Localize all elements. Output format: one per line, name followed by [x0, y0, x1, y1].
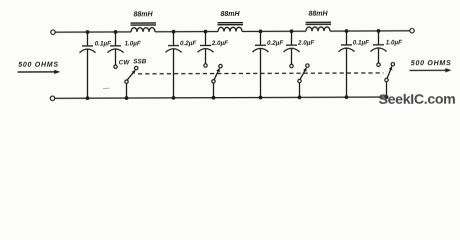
- junction dot C6 on top rail: [290, 29, 294, 33]
- capacitor C7 lead (bottom, to ground rail): [346, 48, 348, 97]
- junction dot C1 on top rail: [86, 30, 90, 34]
- svg-text:SSB: SSB: [133, 58, 146, 65]
- switch S1 throw contact circle (SSB side): [135, 66, 138, 69]
- switch S2 throw contact circle (SSB side): [219, 64, 222, 67]
- inductor L1 88mH winding: [131, 28, 155, 32]
- capacitor C5 plates (0.2&#181;F): [253, 45, 269, 52]
- arrow: signal direction (left input): [18, 70, 61, 74]
- junction dot C7 on top rail: [345, 29, 349, 33]
- svg-text:0.1µF: 0.1µF: [353, 40, 369, 47]
- switch S1 arm with arrowhead: [127, 70, 135, 80]
- inductor L2 value label 88mH: [220, 11, 240, 18]
- switch S3 arm with arrowhead: [300, 68, 306, 80]
- capacitor C8 lead (top): [378, 31, 380, 44]
- wire: top rail, T1 to L1: [55, 31, 131, 33]
- capacitor C2 lead (top): [115, 32, 117, 45]
- capacitor C4 value label 2.0&#181;F: [211, 40, 228, 47]
- capacitor C3 lead (bottom, to ground rail): [173, 49, 175, 98]
- svg-text:500 OHMS: 500 OHMS: [411, 60, 452, 67]
- capacitor C4 plates (2.0&#181;F): [198, 45, 214, 52]
- inductor L2 core bars: [218, 23, 244, 25]
- wire: switch S2 pole to bottom rail: [213, 83, 215, 98]
- svg-text:0.1µF: 0.1µF: [95, 41, 111, 48]
- wire: switch S4 pole to bottom rail: [386, 82, 388, 97]
- capacitor C5 lead (bottom, to ground rail): [260, 49, 262, 98]
- faint scan artifact dash: [103, 87, 110, 89]
- capacitor C2 value label 1.0&#181;F: [125, 41, 141, 48]
- inductor L2 88mH winding: [218, 27, 242, 31]
- wire: top rail, L2 to L3: [242, 30, 306, 32]
- inductor L3 core bars: [306, 22, 332, 24]
- inductor L3 88mH winding: [306, 27, 330, 31]
- svg-text:SeekIC.com: SeekIC.com: [379, 92, 456, 108]
- switch contact circle at bottom of C2: [114, 65, 117, 68]
- inductor L3 value label 88mH: [308, 11, 328, 18]
- capacitor C7 value label 0.1&#181;F: [353, 40, 369, 47]
- svg-text:1.0µF: 1.0µF: [386, 40, 402, 47]
- switch S4 arm with arrowhead: [387, 66, 392, 78]
- junction dot C5 on top rail: [259, 29, 263, 33]
- capacitor C6 plates (2.0&#181;F): [284, 45, 300, 52]
- arrow: signal direction (right output): [410, 68, 452, 72]
- capacitor C1 lead (bottom, to ground rail): [87, 49, 89, 98]
- svg-text:1.0µF: 1.0µF: [125, 41, 141, 48]
- capacitor C5 value label 0.2&#181;F: [267, 40, 283, 47]
- capacitor C1 value label 0.1&#181;F: [95, 41, 111, 48]
- dashed gang line linking switch arms: [138, 72, 383, 75]
- capacitor C3 lead (top): [173, 32, 175, 45]
- svg-text:88mH: 88mH: [220, 11, 240, 18]
- junction dot C2 on top rail: [114, 30, 118, 34]
- switch S2 arm with arrowhead: [214, 68, 220, 79]
- capacitor C2 lead (bottom, to switch contact): [115, 49, 117, 64]
- svg-text:500 OHMS: 500 OHMS: [18, 62, 59, 69]
- switch S4 pole contact circle: [385, 78, 388, 81]
- svg-text:0.2µF: 0.2µF: [180, 40, 196, 47]
- junction dot switch S3 on bottom rail: [298, 95, 302, 99]
- terminal T2: bottom-left (open circle): [50, 96, 54, 100]
- capacitor C7 lead (top): [346, 31, 348, 44]
- terminal T1: top-left input (open circle): [51, 30, 55, 34]
- switch S2 pole contact circle: [212, 80, 215, 83]
- capacitor C4 lead (bottom, to switch contact): [205, 49, 207, 64]
- capacitor C6 lead (bottom, to switch contact): [291, 49, 293, 65]
- capacitor C2 plates (1.0&#181;F): [108, 46, 124, 53]
- schematic drawing (slight scan tilt): [18, 10, 456, 109]
- label: 500 OHMS input impedance (left): [18, 62, 59, 69]
- svg-text:2.0µF: 2.0µF: [297, 40, 314, 47]
- junction dot C7 on bottom rail: [345, 95, 349, 99]
- capacitor C1 plates (0.1&#181;F): [80, 46, 96, 53]
- wire: top rail, L1 to L2: [155, 31, 218, 33]
- label: 500 OHMS output impedance (right): [411, 60, 452, 67]
- wire: switch S1 pole to bottom rail: [126, 84, 128, 99]
- capacitor C1 lead (top): [87, 32, 89, 45]
- switch S4 throw contact circle (SSB side): [391, 63, 394, 66]
- junction dot switch S4 on bottom rail: [385, 95, 389, 99]
- svg-text:2.0µF: 2.0µF: [211, 40, 228, 47]
- capacitor C7 plates (0.1&#181;F): [339, 45, 355, 52]
- capacitor C6 lead (top): [291, 31, 293, 44]
- junction dot C8 on top rail: [377, 29, 381, 33]
- inductor L1 core bars: [131, 23, 157, 25]
- junction dot switch S2 on bottom rail: [212, 96, 216, 100]
- capacitor C6 value label 2.0&#181;F: [297, 40, 314, 47]
- switch contact circle at bottom of C6: [290, 64, 293, 67]
- label: SSB position (switch S1): [133, 58, 146, 65]
- inductor L1 value label 88mH: [133, 12, 153, 19]
- terminal T3: top-right output (open circle): [410, 28, 414, 32]
- capacitor C8 plates (1.0&#181;F): [371, 45, 387, 52]
- junction dot C3 on bottom rail: [172, 96, 176, 100]
- junction dot C4 on top rail: [204, 30, 208, 34]
- capacitor C8 value label 1.0&#181;F: [386, 40, 402, 47]
- svg-text:CW: CW: [119, 59, 131, 66]
- capacitor C3 value label 0.2&#181;F: [180, 40, 196, 47]
- wire: top rail, L3 to T3: [330, 30, 410, 32]
- wire: switch S3 pole to bottom rail: [299, 83, 301, 98]
- switch contact circle at bottom of C4: [204, 64, 207, 67]
- svg-text:88mH: 88mH: [133, 12, 153, 19]
- switch contact circle at bottom of C8: [377, 63, 380, 66]
- wire: bottom ground rail: [55, 97, 388, 98]
- capacitor C5 lead (top): [260, 31, 262, 44]
- watermark: SeekIC.com: [379, 92, 456, 108]
- svg-text:0.2µF: 0.2µF: [267, 40, 283, 47]
- switch S1 pole contact circle: [125, 80, 128, 83]
- junction dot C5 on bottom rail: [259, 96, 263, 100]
- capacitor C4 lead (top): [205, 32, 207, 45]
- junction dot C3 on top rail: [172, 30, 176, 34]
- capacitor C3 plates (0.2&#181;F): [166, 46, 182, 53]
- svg-text:88mH: 88mH: [308, 11, 328, 18]
- switch S3 throw contact circle (SSB side): [306, 64, 309, 67]
- switch S3 pole contact circle: [298, 79, 301, 82]
- label: CW position (switch S1): [119, 59, 131, 66]
- junction dot C1 on bottom rail: [86, 96, 90, 100]
- junction dot switch S1 on bottom rail: [125, 96, 129, 100]
- capacitor C8 lead (bottom, to switch contact): [378, 48, 380, 63]
